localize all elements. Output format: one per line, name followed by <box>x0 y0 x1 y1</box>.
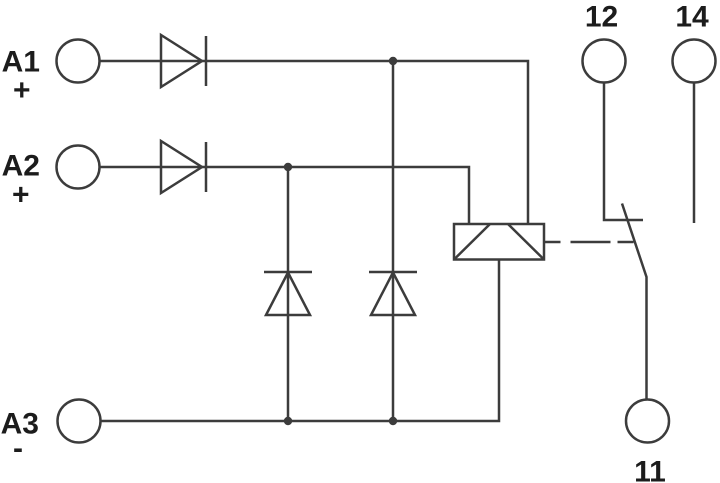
dashed actuator link from coil to blade <box>545 241 634 244</box>
svg-text:+: + <box>12 179 30 212</box>
svg-text:11: 11 <box>634 456 666 483</box>
terminal 12 <box>583 40 626 83</box>
node junction A3/D4 <box>389 417 397 425</box>
node junction A2/D3 <box>284 163 292 171</box>
wire vertical net from A1 junction through D4 to A3 line <box>392 61 395 421</box>
wire terminal 12 to fixed contact seat <box>604 83 643 221</box>
diode D3 suppressor on A2 net <box>264 272 312 315</box>
node junction A1/D4 <box>389 57 397 65</box>
terminal 11 <box>626 400 669 443</box>
svg-text:12: 12 <box>585 1 618 34</box>
diode D1 on A1 line <box>161 35 206 87</box>
terminal 14 <box>673 40 716 83</box>
svg-text:-: - <box>13 432 23 465</box>
diode D4 suppressor on A1 net <box>369 272 417 315</box>
terminal A3 <box>58 400 101 443</box>
svg-text:14: 14 <box>675 1 709 34</box>
wire A1 line to coil right terminal <box>100 61 528 224</box>
wire A3 line to coil bottom terminal <box>100 260 499 422</box>
svg-text:+: + <box>13 74 31 107</box>
node junction A3/D3 <box>284 417 292 425</box>
relay coil K1 <box>454 224 544 260</box>
wire A2 line to coil left terminal <box>100 167 469 224</box>
diode D2 on A2 line <box>161 141 206 193</box>
wire vertical net from A2 junction through D3 to A3 line <box>287 167 290 421</box>
terminal A2 <box>57 146 100 189</box>
wire terminal 14 to open contact <box>693 83 696 224</box>
switch blade from terminal 11 <box>622 204 647 401</box>
terminal A1 <box>57 40 100 83</box>
